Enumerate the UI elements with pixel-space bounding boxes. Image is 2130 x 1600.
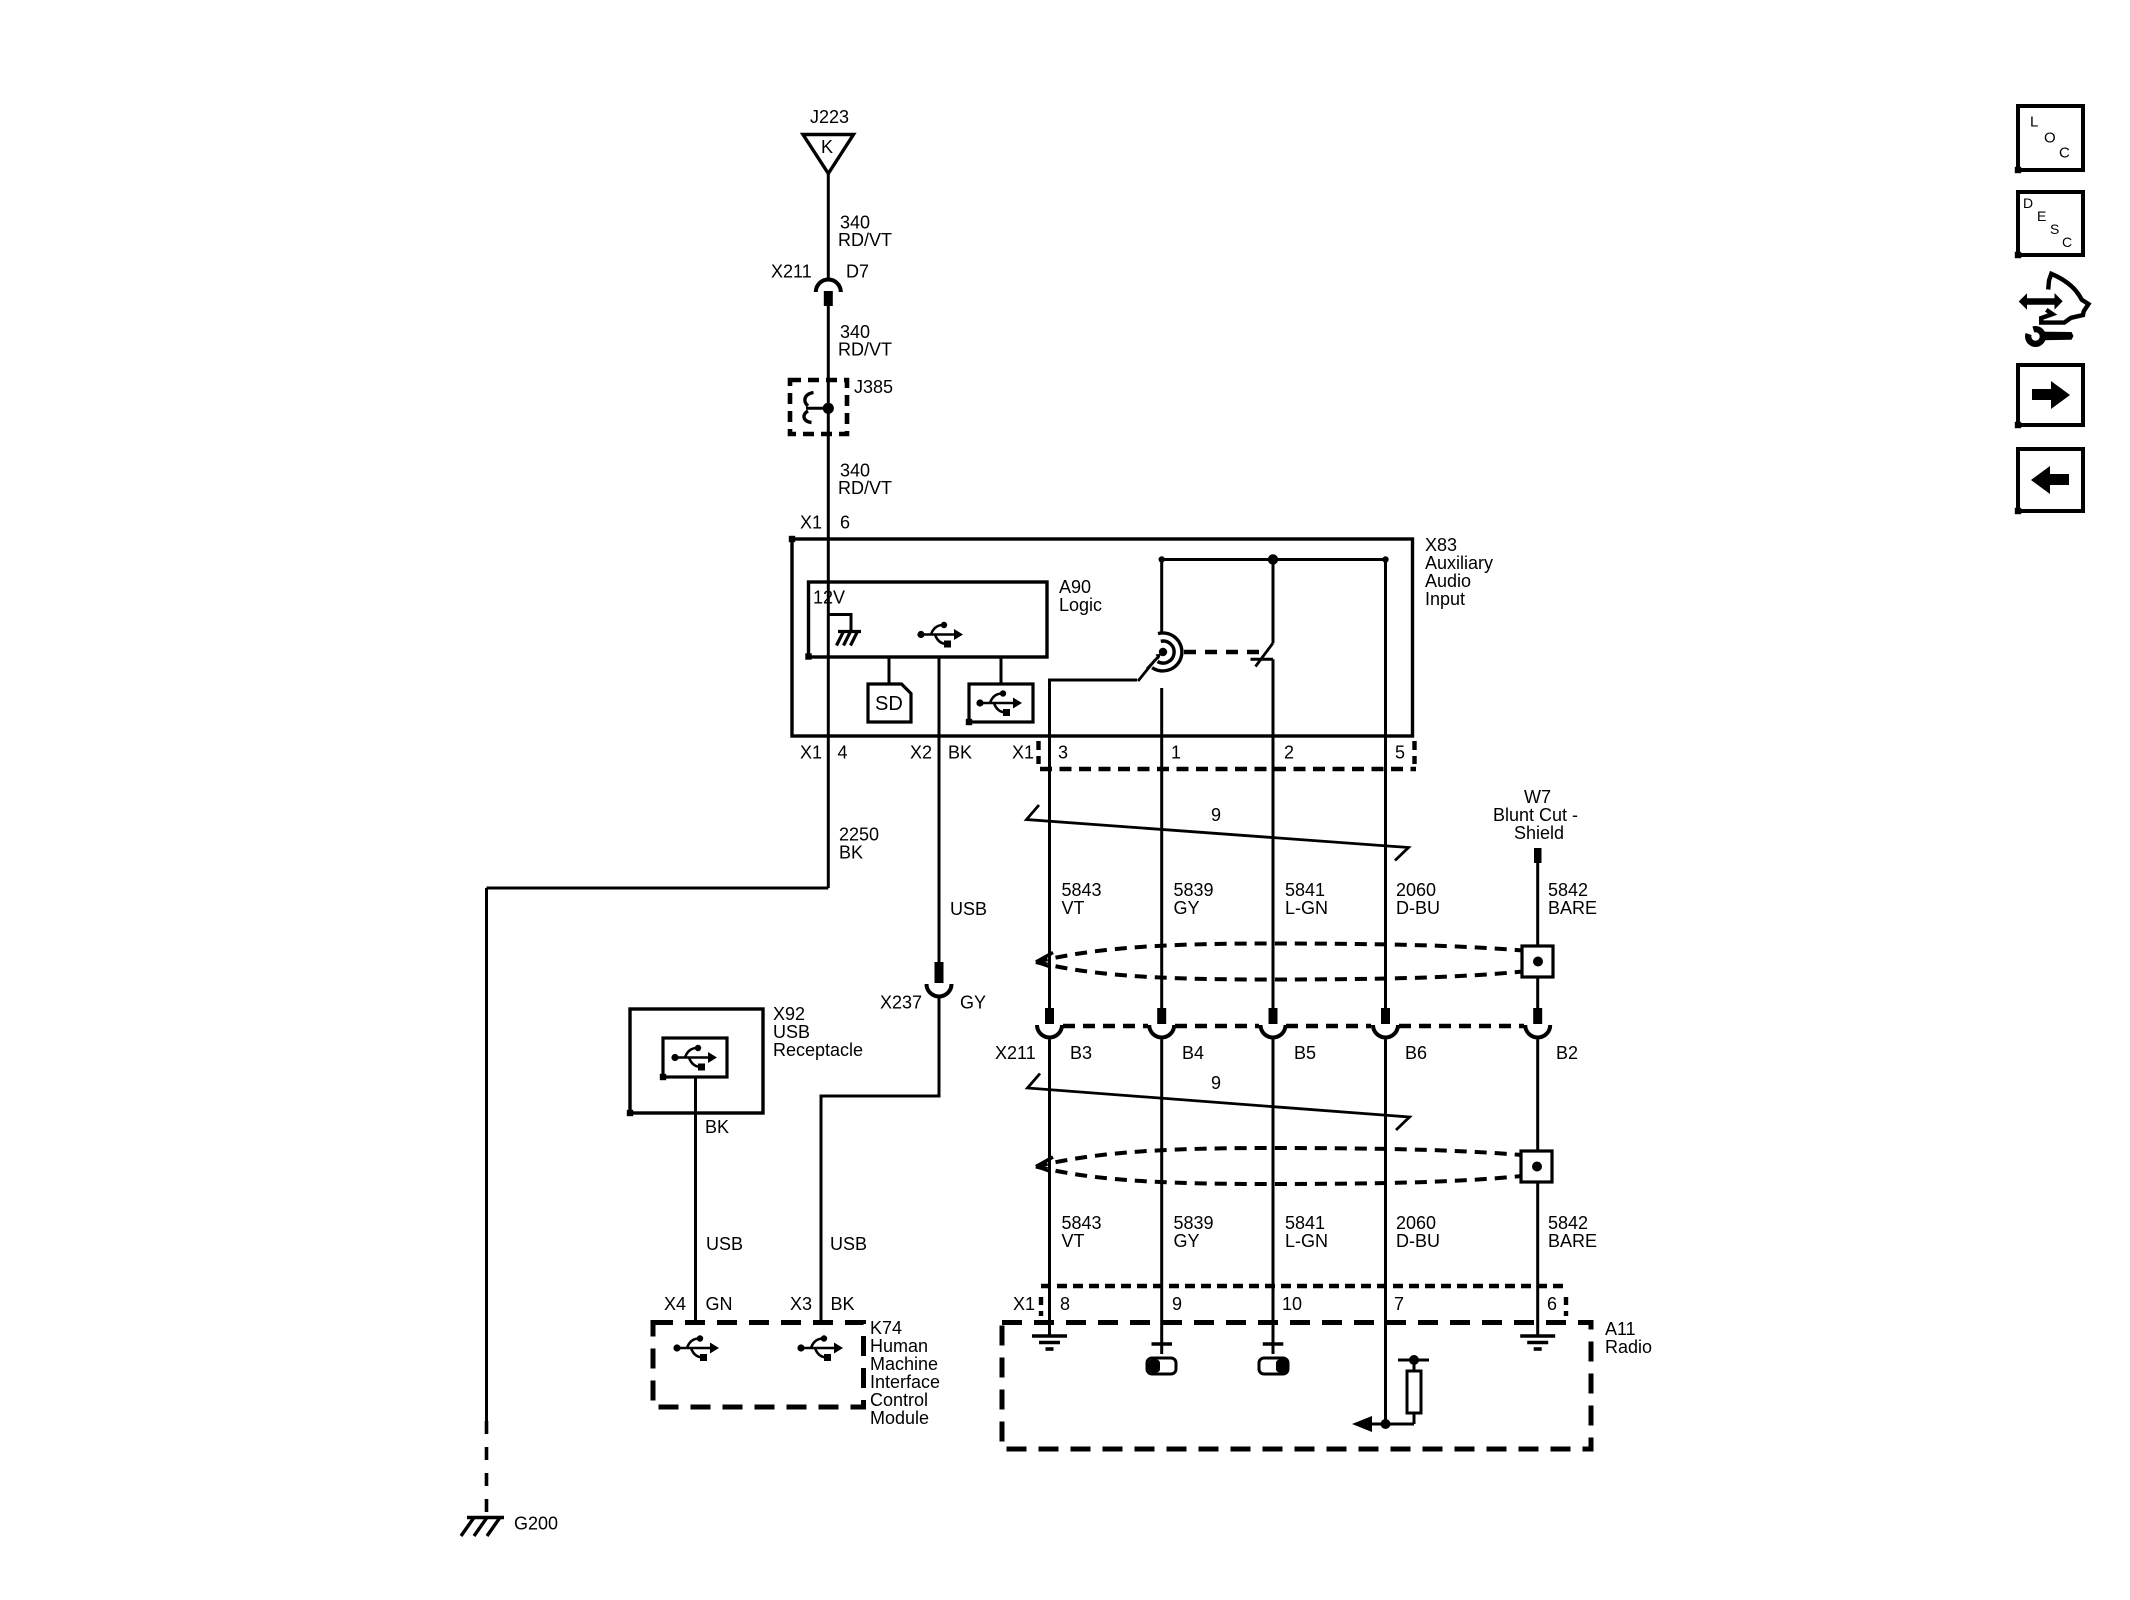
svg-text:E: E — [2037, 208, 2046, 224]
svg-text:X2: X2 — [910, 742, 932, 762]
shield ellipse (lower) with drain termination — [1036, 1148, 1552, 1184]
inner bus wire (top, pins 1-2-5) — [1159, 554, 1389, 564]
svg-text:Audio: Audio — [1425, 571, 1471, 591]
svg-text:D7: D7 — [846, 261, 869, 281]
svg-text:2060: 2060 — [1396, 880, 1436, 900]
svg-text:8: 8 — [1060, 1294, 1070, 1314]
svg-text:2: 2 — [1284, 742, 1294, 762]
svg-text:X4: X4 — [664, 1294, 686, 1314]
svg-text:USB: USB — [773, 1022, 810, 1042]
svg-text:C: C — [2059, 145, 2070, 162]
svg-text:GY: GY — [960, 992, 986, 1012]
svg-text:USB: USB — [830, 1234, 867, 1254]
svg-text:D: D — [2023, 195, 2033, 211]
wire pin 3 to jack switch — [1050, 680, 1138, 736]
ground symbol inside A90 — [828, 615, 861, 646]
svg-text:BK: BK — [948, 742, 972, 762]
radio pin 8 internal ground — [1032, 1286, 1067, 1349]
svg-text:5: 5 — [1395, 742, 1405, 762]
connector X237 GY — [880, 962, 986, 1012]
X83 bottom pin labels X1 4 X2 BK X1 3 1 2 5 — [800, 742, 1405, 762]
svg-text:B2: B2 — [1556, 1043, 1578, 1063]
wires below X211 row — [1048, 1040, 1051, 1287]
svg-text:9: 9 — [1172, 1294, 1182, 1314]
svg-text:BK: BK — [839, 842, 863, 862]
radio pin 7 detect circuit (resistor pull-up, arrow) — [1352, 1286, 1429, 1432]
wire USB (X2 to X237) — [939, 736, 987, 963]
wire 340 RD/VT (fuse J223 to connector X211) — [828, 174, 892, 281]
svg-text:5842: 5842 — [1548, 1213, 1588, 1233]
svg-text:Input: Input — [1425, 589, 1465, 609]
svg-text:7: 7 — [1394, 1294, 1404, 1314]
svg-text:Human: Human — [870, 1336, 928, 1356]
mechanical linkage (dashed) jack to switch — [1184, 650, 1266, 654]
svg-text:Shield: Shield — [1514, 823, 1564, 843]
splice J385 — [790, 377, 893, 434]
wire pin 2 (to detect switch) — [1272, 560, 1275, 644]
USB symbol (K74 X3 port) — [797, 1335, 843, 1361]
svg-text:2060: 2060 — [1396, 1213, 1436, 1233]
SD card reader icon — [868, 657, 911, 722]
svg-text:X1: X1 — [1012, 742, 1034, 762]
svg-text:2250: 2250 — [839, 824, 879, 844]
shield ellipse (upper) with drain termination — [1036, 944, 1553, 980]
switch blade at jack — [1138, 660, 1155, 681]
svg-text:X1: X1 — [800, 512, 822, 532]
svg-text:BARE: BARE — [1548, 898, 1597, 918]
svg-text:D-BU: D-BU — [1396, 898, 1440, 918]
svg-text:A11: A11 — [1605, 1319, 1636, 1339]
in-line connector X211 row: B3 B4 B5 B6 B2 — [1037, 1008, 1062, 1038]
svg-text:B4: B4 — [1182, 1043, 1204, 1063]
pin label X1 6 (X83 top) — [800, 512, 850, 532]
icon button DESC — [2018, 192, 2083, 255]
svg-text:X1: X1 — [800, 742, 822, 762]
svg-text:GN: GN — [706, 1294, 733, 1314]
wire pin5 down to X211 B6 — [1384, 736, 1387, 1008]
USB symbol (K74 X4 port) — [673, 1335, 719, 1361]
svg-text:RD/VT: RD/VT — [838, 339, 892, 359]
svg-text:5842: 5842 — [1548, 880, 1588, 900]
svg-text:X83: X83 — [1425, 535, 1457, 555]
svg-text:X211: X211 — [995, 1043, 1036, 1063]
icon vehicle data-transfer / tools — [2019, 274, 2089, 347]
svg-text:Receptacle: Receptacle — [773, 1040, 863, 1060]
svg-text:4: 4 — [838, 742, 848, 762]
wire USB (X237 to K74 X3) — [821, 997, 939, 1323]
ground G200 — [461, 1513, 558, 1536]
twisted pair symbol 9 (lower) — [1028, 1073, 1410, 1130]
wire 5842 BARE (W7 to B2) — [1536, 863, 1539, 1008]
wire labels (lower set) — [1062, 1213, 1598, 1251]
svg-text:6: 6 — [840, 512, 850, 532]
USB port icon box — [969, 657, 1033, 722]
W7 Blunt Cut - Shield — [1493, 787, 1578, 863]
svg-text:12V: 12V — [813, 587, 845, 607]
svg-text:9: 9 — [1211, 805, 1221, 825]
svg-text:VT: VT — [1062, 1231, 1085, 1251]
connector bracket X1 (dashed) below X83 — [1039, 741, 1417, 769]
svg-text:5841: 5841 — [1285, 1213, 1325, 1233]
twisted pair symbol 9 (upper) — [1027, 805, 1409, 861]
svg-text:B3: B3 — [1070, 1043, 1092, 1063]
svg-text:L: L — [2030, 114, 2038, 131]
svg-text:L-GN: L-GN — [1285, 898, 1328, 918]
svg-text:VT: VT — [1062, 898, 1085, 918]
logic block A90 — [809, 577, 1103, 657]
wire BK / USB (X92 to K74 X4) — [696, 1077, 744, 1322]
svg-text:BARE: BARE — [1548, 1231, 1597, 1251]
svg-text:10: 10 — [1282, 1294, 1302, 1314]
svg-text:3: 3 — [1058, 742, 1068, 762]
dashed connector line X211 row — [1063, 1024, 1524, 1028]
svg-text:Module: Module — [870, 1408, 929, 1428]
svg-text:X237: X237 — [880, 992, 922, 1012]
svg-text:C: C — [2062, 234, 2072, 250]
svg-text:5841: 5841 — [1285, 880, 1325, 900]
svg-text:O: O — [2044, 130, 2056, 147]
pin labels X4 GN / X3 BK — [664, 1294, 855, 1314]
USB symbol inside A90 — [917, 622, 963, 648]
wire 340 RD/VT (X211 to splice J385) — [828, 306, 892, 408]
wire pin 2 lower — [1272, 659, 1275, 736]
svg-text:SD: SD — [875, 693, 903, 715]
module K74 Human Machine Interface Control Module — [653, 1318, 940, 1428]
svg-text:X1: X1 — [1013, 1294, 1035, 1314]
svg-text:9: 9 — [1211, 1073, 1221, 1093]
svg-text:S: S — [2050, 221, 2059, 237]
svg-text:J223: J223 — [810, 107, 849, 127]
wire pin 1 lower — [1160, 688, 1163, 736]
wire pin 1 (jack tip) — [1160, 560, 1163, 634]
svg-text:RD/VT: RD/VT — [838, 478, 892, 498]
svg-text:5839: 5839 — [1174, 1213, 1214, 1233]
svg-text:X3: X3 — [790, 1294, 812, 1314]
svg-text:GY: GY — [1174, 898, 1200, 918]
svg-text:W7: W7 — [1524, 787, 1551, 807]
icon button back arrow — [2018, 449, 2083, 511]
wire 2250 BK (pin 4 to G200) — [487, 736, 880, 1516]
svg-text:GY: GY — [1174, 1231, 1200, 1251]
svg-text:Blunt Cut -: Blunt Cut - — [1493, 805, 1578, 825]
wire pin3 down to X211 B3 — [1048, 736, 1051, 1008]
svg-text:5843: 5843 — [1062, 880, 1102, 900]
svg-text:Logic: Logic — [1059, 595, 1102, 615]
svg-text:J385: J385 — [854, 377, 893, 397]
svg-text:D-BU: D-BU — [1396, 1231, 1440, 1251]
X2 wire inside X83 — [938, 657, 941, 736]
svg-text:B6: B6 — [1405, 1043, 1427, 1063]
svg-text:X211: X211 — [771, 261, 812, 281]
headphone jack symbol (aux input) — [1147, 633, 1182, 671]
svg-text:BK: BK — [831, 1294, 855, 1314]
svg-text:Machine: Machine — [870, 1354, 938, 1374]
wire 12V feed inside X83 (pin 6 through to pin 4) — [827, 539, 830, 736]
svg-text:USB: USB — [950, 899, 987, 919]
svg-text:Radio: Radio — [1605, 1337, 1652, 1357]
module X92 USB Receptacle — [630, 1004, 863, 1113]
svg-text:BK: BK — [705, 1117, 729, 1137]
svg-text:X92: X92 — [773, 1004, 805, 1024]
svg-text:L-GN: L-GN — [1285, 1231, 1328, 1251]
wire pin 5 — [1384, 560, 1387, 737]
fuse J223 — [803, 107, 854, 174]
svg-text:A90: A90 — [1059, 577, 1091, 597]
svg-text:USB: USB — [706, 1234, 743, 1254]
wire pin1 down to X211 B4 — [1160, 736, 1163, 1008]
icon button next arrow — [2018, 365, 2083, 425]
wire labels 5843 VT / 5839 GY / 5841 L-GN / 2060 D-BU / 5842 BARE (upper) — [1062, 880, 1598, 918]
module X83 Auxiliary Audio Input (outer box) — [792, 535, 1493, 736]
svg-text:5843: 5843 — [1062, 1213, 1102, 1233]
icon button LOC — [2018, 106, 2083, 170]
connector X211 pin D7 — [771, 261, 869, 306]
module A11 Radio (dashed box) — [1002, 1319, 1652, 1449]
svg-text:1: 1 — [1171, 742, 1181, 762]
svg-text:6: 6 — [1547, 1294, 1557, 1314]
radio pin 9 audio input (+ and capacitor) — [1147, 1286, 1176, 1374]
svg-text:G200: G200 — [514, 1513, 558, 1533]
radio pin 10 audio input (+ and capacitor) — [1259, 1286, 1288, 1374]
svg-text:5839: 5839 — [1174, 880, 1214, 900]
svg-text:Control: Control — [870, 1390, 928, 1410]
svg-text:Auxiliary: Auxiliary — [1425, 553, 1493, 573]
radio pin 6 internal ground — [1520, 1286, 1555, 1349]
svg-text:K74: K74 — [870, 1318, 902, 1338]
detect switch on pin 2 — [1251, 643, 1274, 667]
X211 row labels — [995, 1043, 1578, 1063]
wire 340 RD/VT (J385 to X83 pin 6) — [828, 408, 892, 539]
wire pin2 down to X211 B5 — [1272, 736, 1275, 1008]
box corner ticks — [789, 536, 795, 542]
svg-text:B5: B5 — [1294, 1043, 1316, 1063]
svg-text:K: K — [821, 137, 833, 157]
svg-text:Interface: Interface — [870, 1372, 940, 1392]
svg-text:RD/VT: RD/VT — [838, 230, 892, 250]
connector bracket X1 (radio) — [1013, 1286, 1566, 1316]
